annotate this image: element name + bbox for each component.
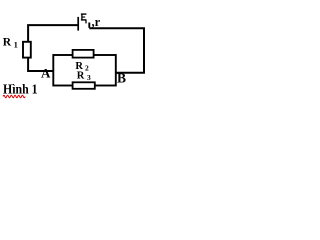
svg-text:1: 1 bbox=[14, 39, 18, 49]
svg-text:2: 2 bbox=[85, 63, 89, 72]
svg-text:3: 3 bbox=[87, 73, 91, 82]
svg-text:Hình 1: Hình 1 bbox=[3, 82, 38, 97]
svg-text:R: R bbox=[3, 36, 12, 48]
svg-text:B: B bbox=[117, 71, 126, 86]
svg-text:A: A bbox=[41, 66, 51, 81]
svg-text:R: R bbox=[77, 70, 85, 81]
svg-text:,r: ,r bbox=[92, 15, 101, 29]
